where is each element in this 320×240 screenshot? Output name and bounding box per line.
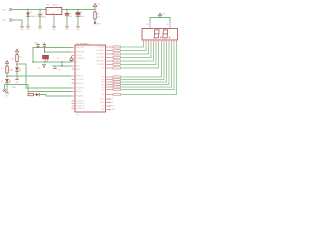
- ground below C2: [65, 27, 69, 31]
- svg-text:D1: D1: [30, 12, 32, 14]
- wire segment net a: [121, 45, 144, 48]
- pin unconnected RST: [106, 105, 115, 107]
- node rail junction A: [32, 61, 33, 62]
- svg-text:(SCK)PB5: (SCK)PB5: [97, 64, 104, 66]
- svg-text:PD1(TXD): PD1(TXD): [76, 79, 84, 81]
- power VCC arrow top: [93, 4, 101, 7]
- wire X2 to IC2: [5, 85, 72, 92]
- power VCC arrow LED2: [15, 49, 18, 52]
- wire X1-2 to ground: [13, 20, 22, 27]
- display digit 2: [163, 30, 168, 38]
- resistor R18: [113, 78, 121, 80]
- capacitor C6: [34, 42, 40, 47]
- svg-text:Q1: Q1: [57, 58, 59, 60]
- display digit 2 decimal point: [169, 37, 170, 38]
- wire VCC to R5: [94, 10, 96, 13]
- node LED1 junction: [6, 75, 7, 76]
- svg-text:PD4(T0): PD4(T0): [76, 91, 82, 93]
- wire segment net l: [121, 45, 172, 88]
- svg-text:S1: S1: [38, 68, 40, 70]
- wire XTAL2: [45, 51, 72, 53]
- svg-text:150: 150: [115, 59, 117, 61]
- svg-text:150: 150: [115, 88, 117, 90]
- power VCC arrow at IC2: [70, 57, 74, 62]
- svg-text:150: 150: [115, 66, 117, 68]
- resistor R20: [113, 83, 121, 85]
- pin display common anode 2: [169, 22, 171, 29]
- resistor R19: [113, 81, 121, 83]
- power VCC arrow LED1: [5, 61, 8, 64]
- resistor R3: [1, 66, 12, 73]
- wire R6 to D2: [33, 94, 36, 96]
- node cap C7 junction: [44, 51, 45, 52]
- svg-text:PD5: PD5: [101, 90, 104, 92]
- wire segment net b: [121, 45, 147, 51]
- svg-text:X1-1: X1-1: [2, 9, 6, 11]
- resistor R22: [113, 88, 121, 90]
- wire segment net h: [121, 45, 162, 78]
- wire LED2 node to IC2 elbow: [17, 64, 72, 88]
- node junction VCC rail end: [94, 9, 95, 10]
- svg-text:GND: GND: [5, 95, 8, 97]
- resistor R15: [113, 63, 121, 65]
- node rail junction B: [44, 61, 45, 62]
- svg-text:GND: GND: [20, 29, 23, 31]
- text resistor values: [115, 45, 117, 95]
- svg-text:150: 150: [115, 49, 117, 51]
- wire LED1 to ground: [6, 83, 8, 93]
- svg-text:GND: GND: [15, 82, 18, 84]
- LED LED2: [11, 67, 20, 71]
- voltage regulator IC1: [46, 4, 62, 15]
- wire segment net c: [121, 45, 149, 55]
- ground bar below rail: [53, 66, 61, 72]
- svg-text:PD1: PD1: [101, 79, 104, 81]
- display bottom pins: [144, 40, 177, 45]
- svg-text:150: 150: [115, 45, 117, 47]
- wire VCC pin rail: [33, 61, 72, 63]
- IC2 left pin labels: [76, 46, 85, 110]
- wire segment net m: [121, 45, 175, 90]
- text display pin numbers: [143, 38, 177, 40]
- ground below X1-2: [20, 27, 24, 31]
- svg-text:PD3(INT1): PD3(INT1): [76, 88, 84, 90]
- diode D1: [26, 12, 36, 18]
- wire D1 drop: [27, 10, 29, 27]
- svg-text:100n: 100n: [42, 16, 46, 18]
- resistor R4: [11, 55, 21, 62]
- op-amp IC2 body: [75, 42, 106, 112]
- svg-text:C2: C2: [69, 13, 71, 15]
- svg-text:100n: 100n: [80, 16, 84, 18]
- svg-text:(MISO)PB4: (MISO)PB4: [96, 61, 104, 63]
- svg-text:150: 150: [115, 80, 117, 82]
- diode D2: [36, 93, 39, 96]
- svg-text:PD3: PD3: [101, 85, 104, 87]
- wire C2 drop: [66, 10, 68, 27]
- wire segment net g: [121, 45, 159, 69]
- connector X2: [3, 89, 6, 92]
- capacitor C2: [65, 13, 72, 18]
- resistor R10: [113, 46, 121, 48]
- wire segment net d: [121, 45, 152, 58]
- wire regulator output rail: [62, 9, 95, 11]
- svg-text:L2: L2: [11, 69, 13, 71]
- svg-text:470: 470: [11, 59, 14, 61]
- svg-text:1N4148: 1N4148: [30, 16, 36, 18]
- resistor R13: [113, 56, 121, 58]
- svg-text:PD0: PD0: [101, 77, 104, 79]
- wire VCC to R3: [6, 63, 8, 66]
- ground below LED2: [15, 79, 19, 83]
- svg-text:R3: R3: [1, 68, 3, 70]
- wire LED1 node to IC2: [7, 75, 72, 77]
- node LED2 junction: [16, 63, 17, 64]
- svg-text:150: 150: [115, 56, 117, 58]
- svg-text:(OC1B)PB2: (OC1B)PB2: [96, 54, 105, 56]
- ground below D1: [26, 27, 30, 31]
- svg-text:PC6: PC6: [101, 68, 104, 70]
- wire C3 drop: [77, 10, 79, 27]
- crystal Q1: [43, 55, 60, 59]
- resistor R16: [113, 67, 121, 69]
- svg-text:PD5(T1): PD5(T1): [76, 55, 82, 57]
- wire input rail: [13, 9, 46, 11]
- wire regulator ground drop: [53, 15, 55, 18]
- IC2 right stub pins top group: [106, 47, 114, 68]
- ground arrow below rail: [38, 64, 45, 69]
- node junction C1: [39, 9, 40, 10]
- wire AVCC branch: [61, 62, 63, 66]
- resistor R5: [94, 12, 100, 19]
- capacitor C3: [76, 12, 84, 18]
- svg-text:C1: C1: [42, 13, 44, 15]
- resistor R23: [113, 93, 121, 95]
- IC2 right stub pins bottom group: [106, 77, 114, 95]
- capacitor C1: [38, 13, 46, 18]
- LED LED1: [1, 79, 10, 83]
- ground below IC1: [52, 27, 56, 31]
- IC2 left stub pins: [72, 48, 76, 109]
- svg-text:(ICP)PB0: (ICP)PB0: [98, 47, 105, 49]
- node RESET open end: [94, 22, 102, 26]
- wire XTAL1: [33, 48, 72, 63]
- resistor R17: [113, 76, 121, 78]
- ground below C3: [76, 27, 80, 31]
- wire R3 to node: [6, 73, 8, 78]
- svg-text:PD4: PD4: [101, 88, 104, 90]
- svg-text:GND: GND: [58, 70, 61, 72]
- wire segment net f: [121, 45, 157, 65]
- ground below LED1: [5, 93, 9, 97]
- svg-text:GND: GND: [52, 29, 55, 31]
- svg-text:RST: RST: [112, 106, 115, 108]
- resistor R21: [113, 86, 121, 88]
- wire display VCC rail: [150, 18, 170, 22]
- resistor R6: [28, 92, 33, 96]
- power VCC arrow display: [158, 13, 166, 18]
- wire R4 to node: [16, 62, 18, 67]
- wire crystal legs: [44, 56, 46, 62]
- svg-text:150: 150: [115, 93, 117, 95]
- node junction C3: [77, 9, 78, 10]
- display LD1 body: [142, 29, 178, 41]
- svg-text:GND: GND: [76, 29, 79, 31]
- svg-text:RST: RST: [101, 106, 104, 108]
- svg-text:R4: R4: [19, 57, 21, 59]
- IC2 right pin labels: [96, 47, 105, 111]
- ground below C1: [38, 27, 42, 31]
- resistor R11: [113, 49, 121, 51]
- svg-text:L1: L1: [1, 81, 3, 83]
- node display VCC junction: [159, 17, 160, 18]
- pin unconnected A5: [106, 101, 114, 104]
- node junction C2: [66, 9, 67, 10]
- wire LED2 to ground: [16, 71, 18, 79]
- display digit 1 decimal point: [160, 37, 161, 38]
- node AGND junction: [54, 65, 55, 66]
- connector X1-1: [2, 8, 12, 11]
- svg-text:150: 150: [115, 85, 117, 87]
- svg-text:IC1: IC1: [47, 4, 50, 6]
- display digit 1: [154, 30, 159, 38]
- svg-text:PD6: PD6: [101, 94, 104, 96]
- wire segment net k: [121, 45, 169, 85]
- wire segment net n: [121, 45, 177, 95]
- pin unconnected GND: [106, 109, 116, 111]
- svg-text:150: 150: [115, 63, 117, 65]
- wire R5 to reset stub: [94, 19, 96, 23]
- pin unconnected A4: [106, 98, 114, 101]
- wire segment net j: [121, 45, 167, 83]
- svg-text:PD2: PD2: [101, 82, 104, 84]
- svg-text:150: 150: [115, 75, 117, 77]
- svg-text:10u: 10u: [69, 16, 72, 18]
- svg-text:X1-2: X1-2: [2, 20, 6, 22]
- svg-text:PD0(RXD): PD0(RXD): [76, 76, 84, 78]
- svg-text:LM35: LM35: [12, 87, 16, 89]
- resistor R14: [113, 60, 121, 62]
- svg-text:150: 150: [115, 52, 117, 54]
- svg-text:PD2(INT0): PD2(INT0): [76, 83, 84, 85]
- svg-text:150: 150: [115, 83, 117, 85]
- wire segment net e: [121, 45, 154, 62]
- svg-text:10k: 10k: [97, 17, 100, 19]
- svg-text:150: 150: [115, 78, 117, 80]
- svg-text:GND: GND: [65, 29, 68, 31]
- wire VCC stub up: [94, 7, 96, 10]
- svg-text:GND: GND: [26, 29, 29, 31]
- resistor R12: [113, 53, 121, 55]
- wire segment net i: [121, 45, 164, 80]
- node cap C6 junction: [37, 47, 38, 48]
- connector X1-2: [2, 19, 12, 22]
- node rail junction C: [61, 61, 62, 62]
- capacitor C7: [42, 42, 46, 52]
- wire D2 to IC2: [39, 95, 71, 96]
- pin display common anode 1: [149, 22, 151, 29]
- svg-text:78L05Z: 78L05Z: [52, 4, 59, 6]
- wire C1 drop: [39, 10, 41, 27]
- svg-text:22p: 22p: [34, 42, 37, 44]
- svg-text:GND: GND: [38, 29, 41, 31]
- node junction D1: [27, 9, 28, 10]
- svg-text:(MOSI)PB3: (MOSI)PB3: [96, 57, 104, 59]
- wire VCC to R4: [16, 52, 18, 55]
